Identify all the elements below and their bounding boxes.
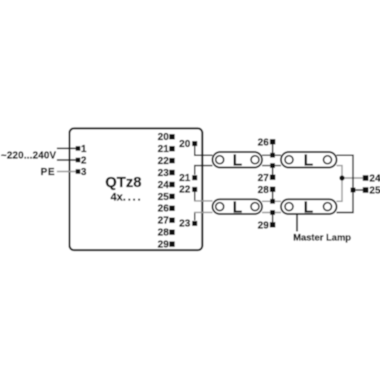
svg-text:25: 25 — [158, 192, 170, 203]
svg-text:24: 24 — [369, 174, 380, 185]
svg-text:27: 27 — [158, 216, 170, 227]
svg-text:26: 26 — [158, 204, 170, 215]
svg-text:25: 25 — [369, 186, 380, 197]
svg-text:21: 21 — [158, 144, 170, 155]
svg-text:23: 23 — [158, 168, 170, 179]
svg-text:28: 28 — [258, 185, 270, 196]
svg-text:L: L — [233, 199, 242, 216]
svg-text:4x....: 4x.... — [111, 191, 143, 203]
svg-text:L: L — [304, 199, 313, 216]
svg-text:L: L — [304, 152, 313, 169]
svg-text:L: L — [233, 152, 242, 169]
svg-text:3: 3 — [81, 167, 87, 178]
svg-text:1: 1 — [81, 144, 87, 155]
svg-text:27: 27 — [258, 173, 270, 184]
svg-text:22: 22 — [179, 185, 191, 196]
svg-text:24: 24 — [158, 180, 170, 191]
svg-text:2: 2 — [81, 156, 87, 167]
svg-text:20: 20 — [158, 132, 170, 143]
svg-text:21: 21 — [179, 173, 191, 184]
svg-text:20: 20 — [179, 139, 191, 150]
svg-text:PE: PE — [41, 167, 55, 178]
svg-text:29: 29 — [258, 221, 270, 232]
svg-text:26: 26 — [258, 138, 270, 149]
svg-text:~220...240V: ~220...240V — [1, 150, 57, 161]
svg-text:QTz8: QTz8 — [105, 175, 141, 191]
svg-text:22: 22 — [158, 156, 170, 167]
svg-text:Master Lamp: Master Lamp — [293, 231, 351, 242]
svg-text:28: 28 — [158, 228, 170, 239]
svg-text:29: 29 — [158, 240, 170, 251]
svg-text:23: 23 — [179, 219, 191, 230]
